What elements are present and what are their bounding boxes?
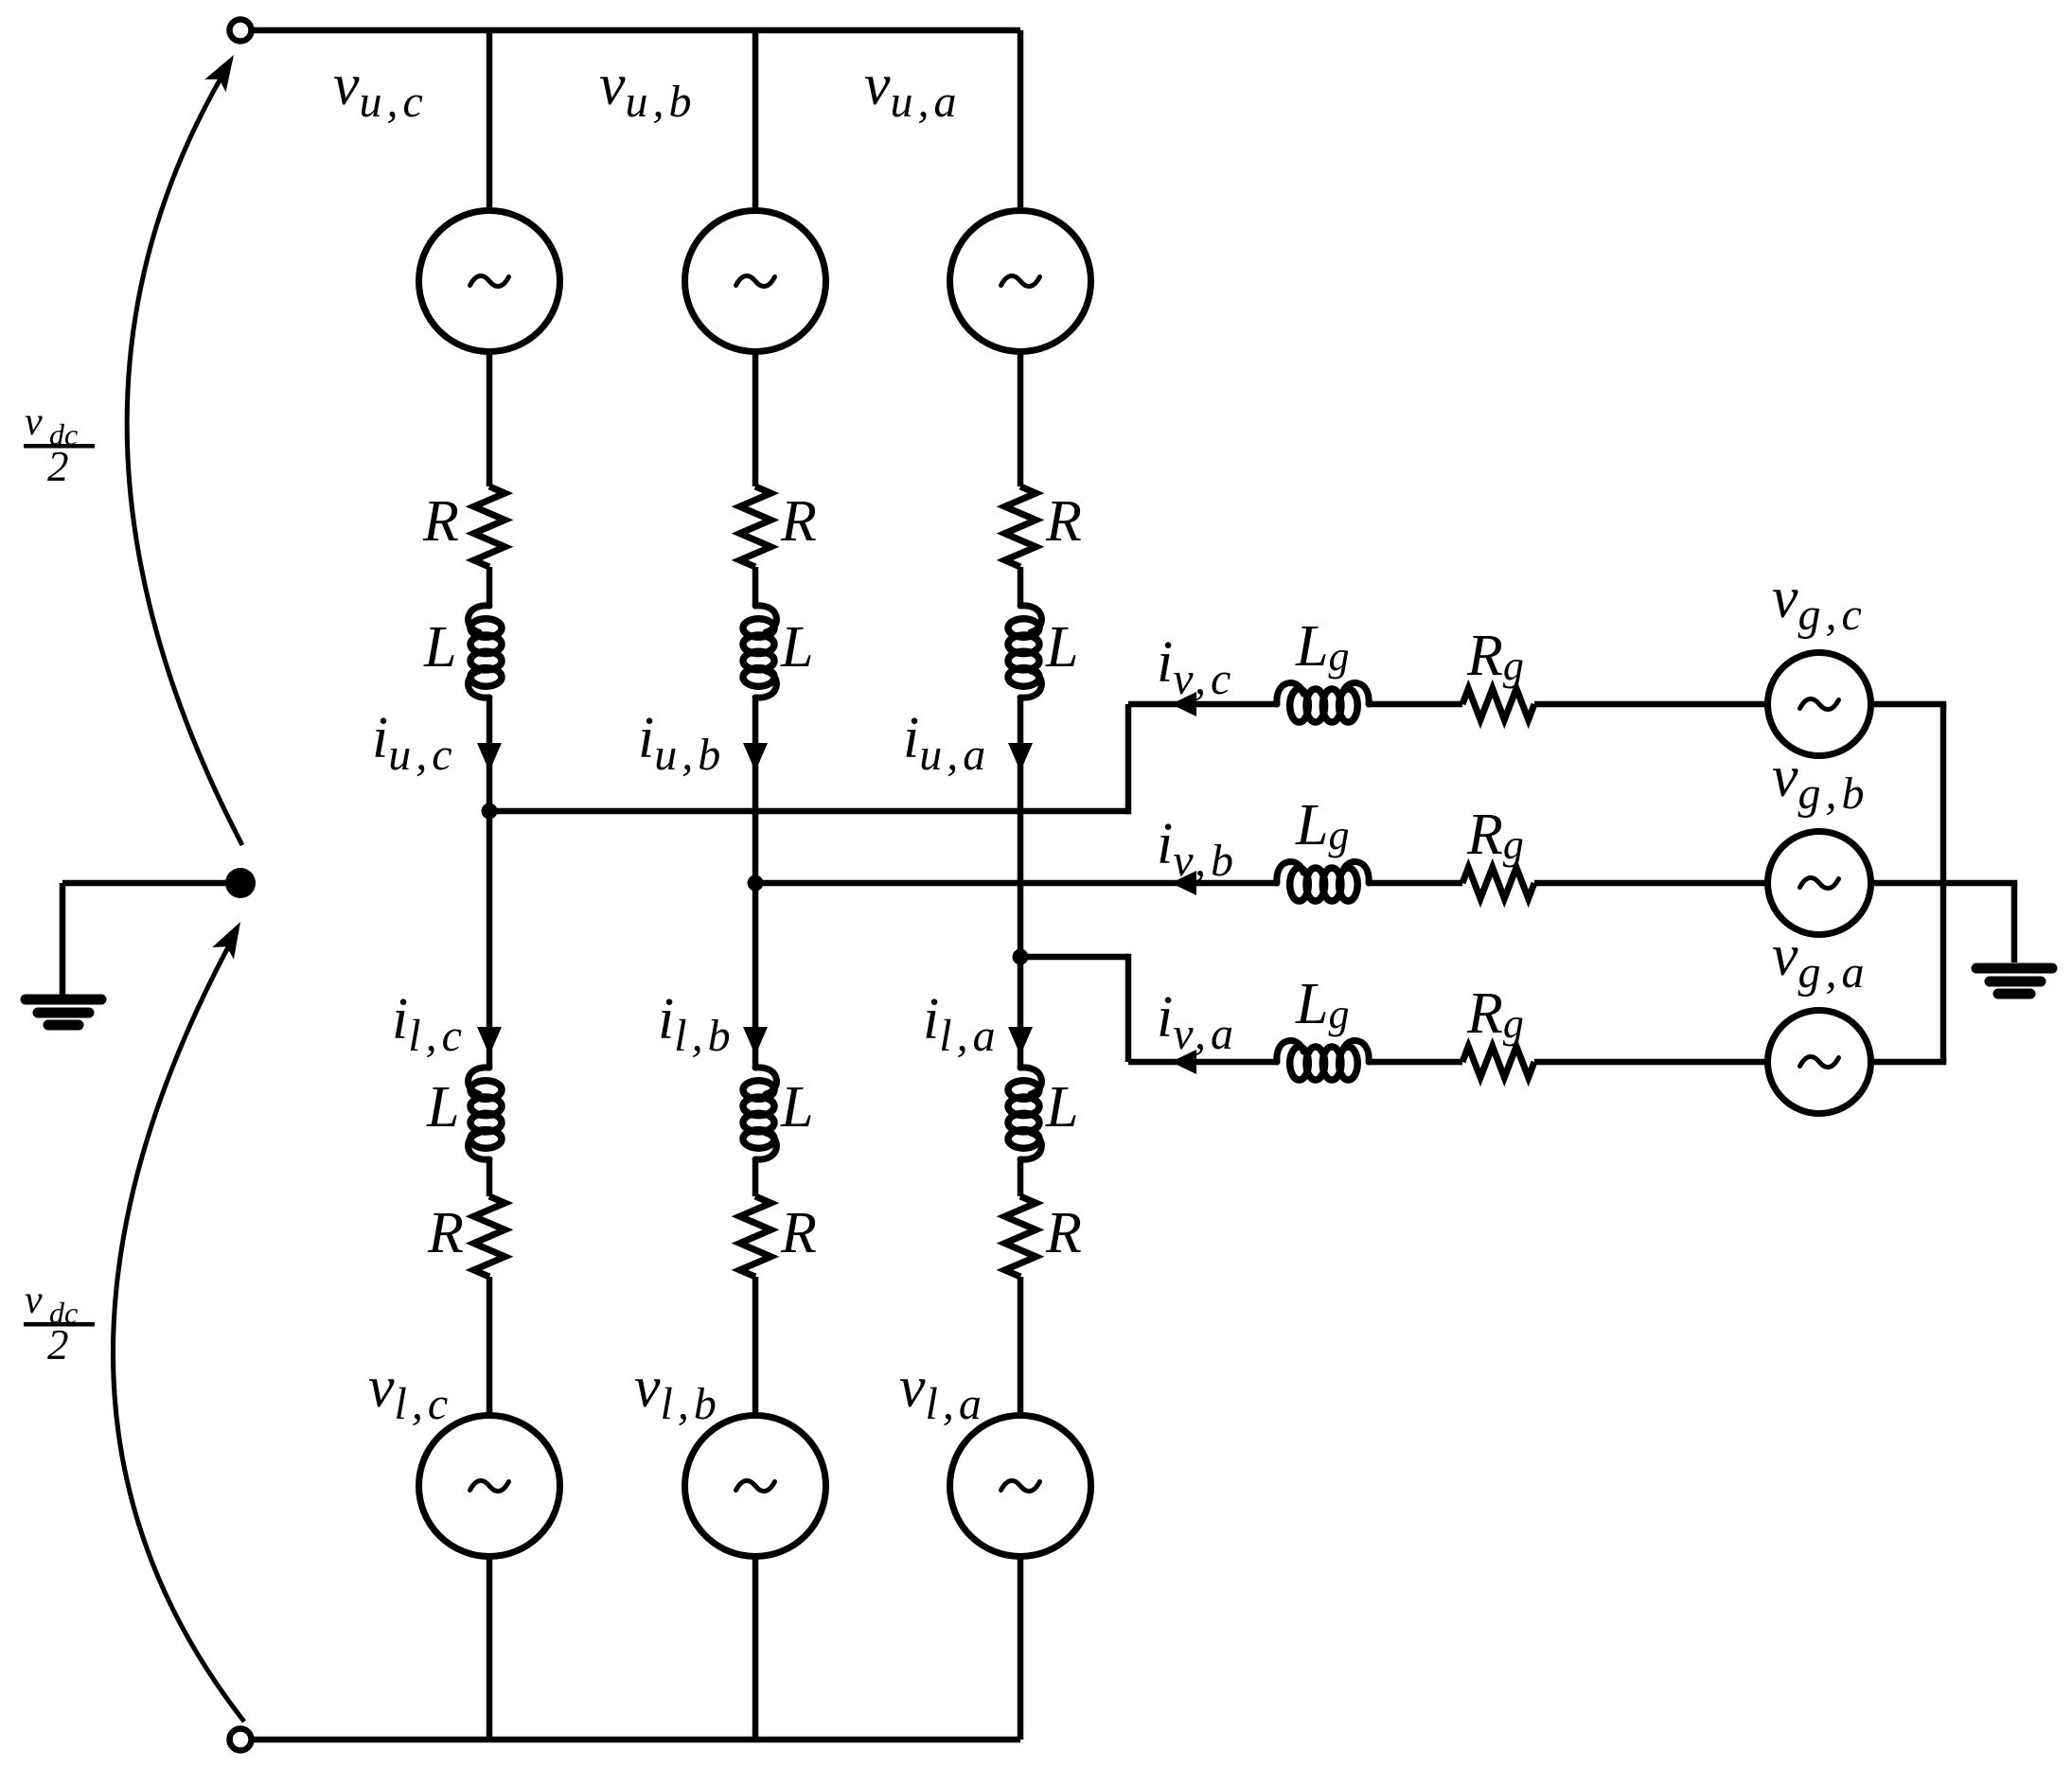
wire lower arm b with current arrow — [743, 883, 768, 1067]
ac source v_u,b — [685, 211, 826, 352]
label i_u,b — [638, 706, 725, 780]
label v_u,c — [333, 53, 428, 127]
label v_g,b — [1772, 745, 1869, 819]
svg-text:R: R — [1045, 489, 1082, 554]
label v_g,c — [1772, 566, 1867, 640]
svg-text:v: v — [25, 1279, 43, 1322]
wire upper arm a — [1018, 350, 1024, 487]
resistor R (upper arm b) — [740, 486, 771, 567]
vdc/2 arrow lower — [113, 916, 251, 1722]
wire lower arm a to bottom rail — [1018, 1555, 1024, 1740]
label i_v,c — [1157, 630, 1235, 704]
inductor L (lower arm b) — [743, 1068, 776, 1159]
wire lower arm b to bottom rail — [753, 1555, 759, 1740]
svg-text:L: L — [423, 615, 456, 680]
resistor R_g (phase c) — [1462, 689, 1534, 720]
label L (lower arm a) — [1045, 1075, 1078, 1140]
wire phase a riser — [1125, 954, 1132, 1062]
label R (upper arm b) — [780, 489, 817, 554]
terminal - (bottom DC rail) — [230, 1729, 252, 1751]
wire phase a node row — [1020, 954, 1128, 961]
label v_l,a — [899, 1355, 986, 1429]
label v_l,c — [368, 1355, 452, 1429]
label L_g (phase a) — [1295, 972, 1354, 1037]
label i_l,c — [392, 987, 467, 1061]
inductor L (upper arm a) — [1008, 606, 1041, 698]
wire lower arm b — [753, 1277, 759, 1418]
ac source v_l,a — [950, 1416, 1091, 1557]
wire grid branch a — [1369, 1059, 1462, 1066]
ground (DC midpoint) — [26, 999, 101, 1025]
wire right ground stem — [2011, 883, 2018, 963]
wire phase c riser — [1125, 704, 1132, 814]
label v_u,b — [599, 53, 697, 127]
resistor R (lower arm b) — [740, 1196, 771, 1277]
ac source v_l,c — [419, 1416, 560, 1557]
wire lower arm c — [487, 1159, 493, 1196]
label v_u,a — [864, 53, 962, 127]
wire grid branch c — [1534, 701, 1770, 708]
wire lower arm a — [1018, 1159, 1024, 1196]
label v_l,b — [634, 1355, 721, 1429]
wire to left ground — [62, 880, 227, 887]
wire upper arm a — [1018, 567, 1024, 605]
wire grid branch c with arrow i_v,c — [1128, 692, 1277, 716]
terminal + (top DC rail) — [230, 20, 252, 42]
svg-text:R: R — [1045, 1201, 1082, 1265]
svg-text:L: L — [780, 1075, 813, 1140]
label vdc/2 lower — [24, 1279, 95, 1369]
resistor R_g (phase b) — [1462, 868, 1534, 899]
inductor L_g (phase b) — [1277, 862, 1369, 901]
svg-text:R: R — [780, 1201, 817, 1265]
label vdc/2 upper — [24, 400, 95, 490]
inductor L (upper arm c) — [469, 606, 502, 698]
wire phase c node row — [489, 808, 1128, 815]
resistor R_g (phase a) — [1462, 1047, 1534, 1078]
wire upper arm b — [753, 567, 759, 605]
wire grid branch c — [1369, 701, 1462, 708]
wire grid branch a with arrow i_v,a — [1128, 1050, 1277, 1074]
wire lower arm b — [753, 1159, 759, 1196]
wire upper arm a from top rail — [1018, 30, 1024, 213]
ac source v_u,c — [419, 211, 560, 352]
label L_g (phase c) — [1295, 614, 1354, 680]
label i_v,a — [1157, 985, 1238, 1059]
label L (upper arm b) — [780, 615, 813, 680]
inductor L_g (phase c) — [1277, 683, 1369, 722]
resistor R (lower arm a) — [1005, 1196, 1036, 1277]
label R_g (phase c) — [1466, 624, 1529, 689]
svg-text:L: L — [1045, 1075, 1078, 1140]
wire upper arm b from top rail — [753, 30, 759, 213]
label R (lower arm a) — [1045, 1201, 1082, 1265]
node DC midpoint 0 — [225, 868, 256, 898]
wire upper arm c with current arrow — [477, 699, 502, 811]
inductor L_g (phase a) — [1277, 1041, 1369, 1080]
resistor R (lower arm c) — [474, 1196, 505, 1277]
wire lower arm c with current arrow — [477, 811, 502, 1067]
wire top DC rail — [252, 27, 1021, 34]
wire upper arm c — [487, 350, 493, 487]
label i_u,a — [903, 706, 990, 780]
wire v_g,a to bus — [1869, 1059, 1947, 1066]
wire upper arm b — [753, 350, 759, 487]
ac source v_g,a — [1768, 1011, 1871, 1114]
label i_v,b — [1157, 812, 1238, 886]
wire lower arm a — [1018, 1277, 1024, 1418]
wire left ground stem — [60, 883, 66, 995]
svg-text:R: R — [427, 1201, 464, 1265]
ac source v_l,b — [685, 1416, 826, 1557]
label R_g (phase b) — [1466, 803, 1529, 868]
wire v_g,c to bus — [1869, 701, 1947, 708]
wire grid branch b — [1534, 880, 1770, 887]
resistor R (upper arm c) — [474, 486, 505, 567]
label i_l,a — [923, 987, 1001, 1061]
label L_g (phase b) — [1295, 793, 1354, 858]
wire lower arm c to bottom rail — [487, 1555, 493, 1740]
ground (grid neutral) — [1976, 968, 2052, 994]
label L (lower arm b) — [780, 1075, 813, 1140]
wire grid branch b — [1369, 880, 1462, 887]
label R (lower arm c) — [427, 1201, 464, 1265]
wire grid branch b with arrow i_v,b — [755, 871, 1277, 895]
label i_u,c — [372, 706, 457, 780]
node dot phase a — [1013, 949, 1029, 965]
inductor L (lower arm a) — [1008, 1068, 1041, 1159]
svg-text:L: L — [1045, 615, 1078, 680]
resistor R (upper arm a) — [1005, 486, 1036, 567]
wire lower arm c — [487, 1277, 493, 1418]
label R (upper arm a) — [1045, 489, 1082, 554]
svg-text:2: 2 — [47, 1321, 69, 1369]
wire grid branch a — [1534, 1059, 1770, 1066]
wire v_g,b to ground — [1869, 880, 2018, 887]
label L (upper arm a) — [1045, 615, 1078, 680]
node dot phase c — [482, 804, 498, 820]
wire upper arm b with current arrow — [743, 699, 768, 883]
wire upper arm c — [487, 567, 493, 605]
svg-text:R: R — [780, 489, 817, 554]
wire upper arm a with current arrow — [1008, 699, 1033, 957]
vdc/2 arrow upper — [127, 48, 244, 845]
svg-text:v: v — [25, 400, 43, 444]
wire bottom DC rail — [252, 1737, 1021, 1743]
svg-text:2: 2 — [47, 443, 69, 490]
label L (upper arm c) — [423, 615, 456, 680]
wire lower arm a with current arrow — [1008, 957, 1033, 1067]
svg-text:L: L — [426, 1075, 459, 1140]
node dot phase b — [748, 875, 764, 892]
label v_g,a — [1772, 924, 1869, 998]
wire upper arm c from top rail — [487, 30, 493, 213]
inductor L (lower arm c) — [469, 1068, 502, 1159]
label L (lower arm c) — [426, 1075, 459, 1140]
inductor L (upper arm b) — [743, 606, 776, 698]
wire grid neutral bus — [1940, 704, 1947, 1062]
label R (upper arm c) — [422, 489, 459, 554]
label R_g (phase a) — [1466, 981, 1529, 1047]
ac source v_u,a — [950, 211, 1091, 352]
ac source v_g,b — [1768, 832, 1871, 935]
label R (lower arm b) — [780, 1201, 817, 1265]
svg-text:R: R — [422, 489, 459, 554]
label i_l,b — [658, 987, 735, 1061]
ac source v_g,c — [1768, 653, 1871, 756]
svg-text:L: L — [780, 615, 813, 680]
